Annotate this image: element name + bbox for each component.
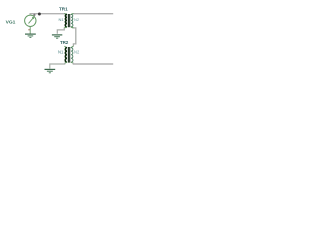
TR1 pin top-left <box>64 14 67 15</box>
svg-text:TR2: TR2 <box>60 40 69 45</box>
TR2 pin bottom-left <box>65 62 67 63</box>
svg-text:N1: N1 <box>58 50 64 55</box>
wire TR1 bottom-right to TR2 top-right <box>73 28 75 47</box>
node junction dot on top wire <box>38 13 41 16</box>
TR2 pin bottom-right <box>71 62 74 63</box>
svg-text:N1: N1 <box>59 17 65 22</box>
minus mark near VG1 negative terminal <box>28 29 30 30</box>
ground below TR1 <box>52 35 62 38</box>
transformer TR1 <box>64 14 73 29</box>
transformer TR2 <box>65 46 74 63</box>
TR1 pin top-right <box>71 14 74 15</box>
svg-text:VG1: VG1 <box>6 20 16 26</box>
TR1 secondary winding <box>71 14 73 27</box>
TR2 primary winding <box>65 48 67 63</box>
wire VG1 to ground <box>29 27 31 34</box>
TR2 core lines <box>67 47 69 63</box>
TR1 pin bottom-left <box>64 27 67 29</box>
ground below-left of TR2 <box>45 69 56 72</box>
TR1 primary winding <box>65 14 67 27</box>
plus sign VG1 positive terminal <box>33 14 36 17</box>
wire TR1 bottom-left to ground <box>57 28 64 34</box>
wire TR2 bottom-left to ground <box>50 63 65 69</box>
wire top from VG1 to TR1 <box>30 14 64 15</box>
TR1 pin bottom-right <box>71 27 74 29</box>
TR2 pin top-left (unconnected) <box>65 46 67 48</box>
voltage generator VG1 <box>25 15 36 26</box>
svg-text:TR1: TR1 <box>59 7 68 12</box>
TR2 pin top-right <box>71 46 74 48</box>
ground below VG1 <box>25 34 36 37</box>
svg-text:N2: N2 <box>74 50 80 55</box>
TR1 core lines <box>67 14 69 27</box>
wire TR2 bottom-right to edge <box>73 63 113 64</box>
TR2 secondary winding <box>71 48 73 63</box>
svg-text:N2: N2 <box>74 17 80 22</box>
wire TR1 top-right to edge <box>74 13 114 15</box>
